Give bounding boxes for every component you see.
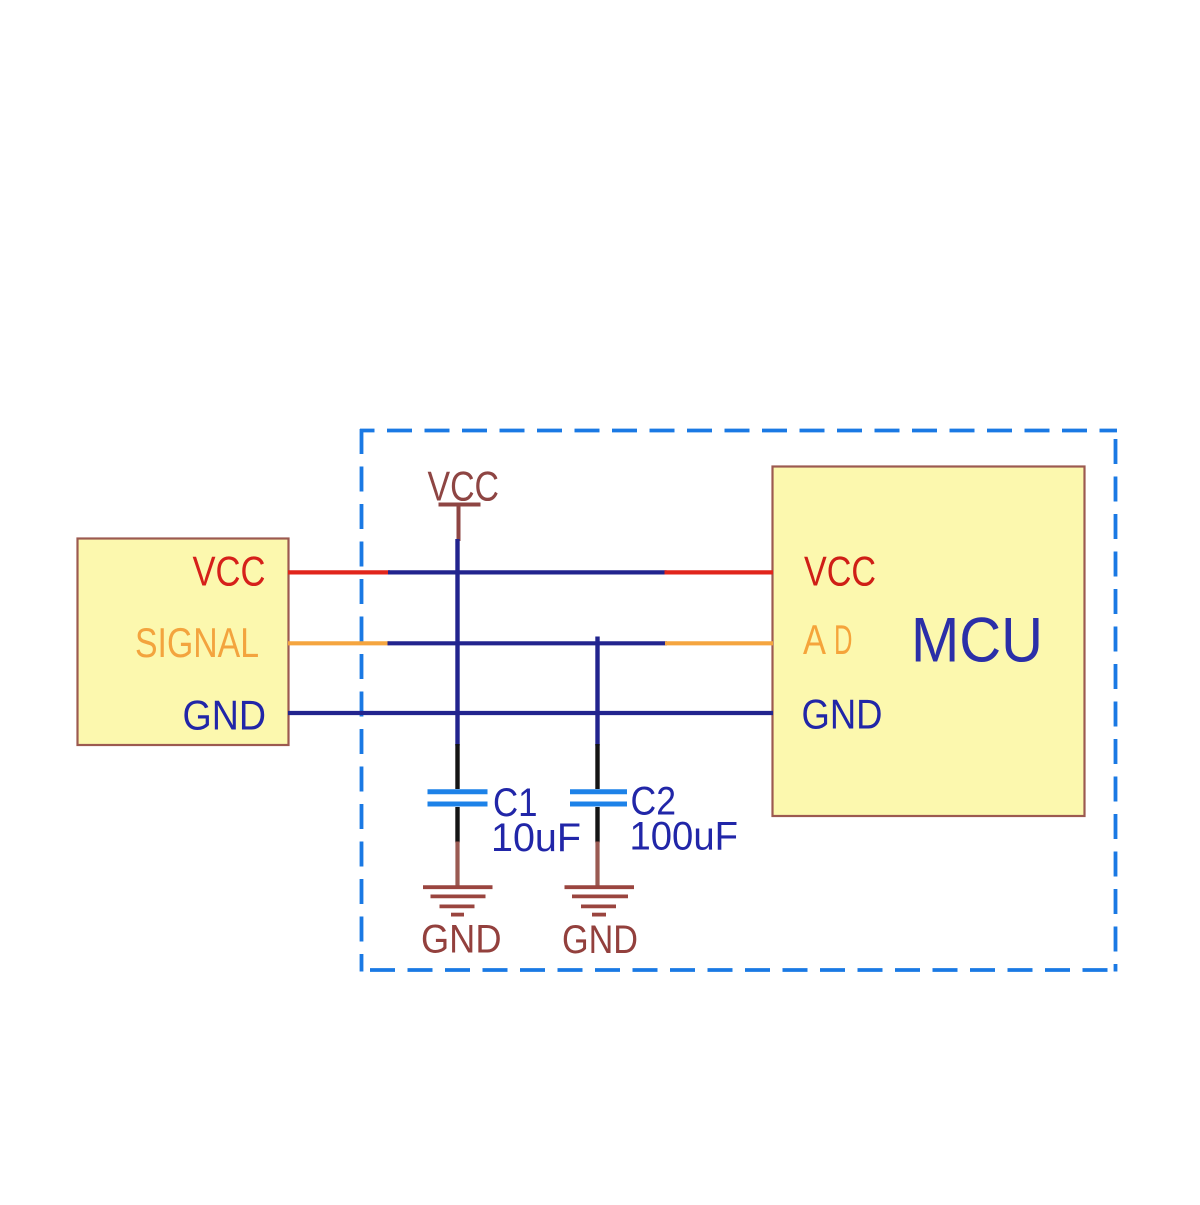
svg-text:A: A bbox=[803, 616, 826, 663]
svg-text:GND: GND bbox=[562, 918, 638, 962]
sensor box bbox=[78, 539, 289, 746]
capacitor C2 top lead bbox=[595, 744, 599, 789]
svg-text:10uF: 10uF bbox=[491, 816, 581, 860]
capacitor C1 plates bbox=[428, 792, 488, 804]
wire vertical VCC net to C1 bbox=[455, 539, 459, 746]
svg-text:GND: GND bbox=[183, 692, 267, 739]
wire SIGNAL orange segment left bbox=[288, 641, 390, 645]
svg-text:GND: GND bbox=[802, 691, 883, 738]
ground symbol 1 bbox=[423, 887, 493, 914]
power flag VCC stem bbox=[457, 505, 461, 542]
wire vertical SIGNAL net to C2 bbox=[595, 637, 599, 746]
wire SIGNAL navy segment middle bbox=[388, 641, 668, 645]
svg-text:100uF: 100uF bbox=[630, 815, 739, 859]
svg-text:SIGNAL: SIGNAL bbox=[135, 619, 259, 666]
capacitor C1 bottom lead bbox=[455, 807, 459, 843]
wire VCC navy segment middle bbox=[388, 570, 667, 574]
wire VCC red segment right bbox=[665, 570, 774, 574]
svg-text:GND: GND bbox=[421, 918, 502, 962]
svg-text:MCU: MCU bbox=[911, 606, 1043, 676]
wire GND navy bbox=[288, 711, 773, 715]
wire VCC red segment left bbox=[288, 570, 390, 574]
ground symbol 2 bbox=[565, 887, 635, 914]
power flag VCC bar bbox=[439, 503, 481, 507]
svg-text:VCC: VCC bbox=[193, 548, 266, 595]
svg-text:D: D bbox=[834, 616, 853, 663]
capacitor C2 bottom lead bbox=[595, 807, 599, 843]
svg-text:VCC: VCC bbox=[428, 462, 500, 509]
wire SIGNAL orange segment right bbox=[665, 641, 773, 645]
svg-text:VCC: VCC bbox=[804, 548, 876, 595]
MCU U1 box bbox=[773, 467, 1085, 817]
capacitor C2 ground lead bbox=[595, 842, 599, 887]
capacitor C1 ground lead bbox=[455, 842, 459, 887]
capacitor C1 top lead bbox=[455, 744, 459, 789]
dashed module boundary box bbox=[360, 429, 1117, 972]
capacitor C2 plates bbox=[570, 792, 627, 804]
